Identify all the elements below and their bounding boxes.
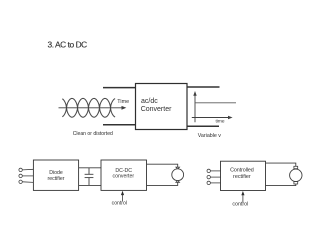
wire terminal 2 to rectifier (22, 175, 33, 177)
motor M1 brush top (176, 167, 180, 169)
wire output top (187, 86, 220, 88)
svg-text:rectifier: rectifier (47, 176, 64, 182)
motor M2 body (290, 169, 302, 181)
wire terminal 1 to rectifier (22, 168, 33, 171)
diode rectifier block (33, 160, 78, 190)
output time axis (192, 116, 233, 120)
svg-text:control: control (112, 201, 127, 207)
wire output bottom (187, 125, 219, 127)
wire motor bottom (147, 182, 178, 185)
dc bus bottom rail (79, 184, 101, 186)
capacitor C1 plate bottom (85, 177, 94, 179)
svg-text:Time: Time (117, 99, 129, 105)
control arrow (controlled rectifier) (241, 191, 244, 202)
input terminal 1 (19, 168, 22, 171)
svg-text:Diode: Diode (49, 170, 63, 176)
svg-text:ac/dc: ac/dc (141, 98, 158, 105)
wire terminal 6 to rectifier (211, 182, 221, 184)
svg-text:time: time (216, 118, 225, 124)
wire terminal 3 to rectifier (22, 181, 33, 184)
dc voltage level line (195, 102, 236, 104)
input terminal 4 (207, 169, 210, 172)
capacitor C1 plate top (85, 173, 94, 175)
ac/dc converter block U1 (136, 84, 188, 130)
dc bus top rail (79, 167, 101, 169)
svg-text:Clean or distorted: Clean or distorted (73, 131, 113, 137)
svg-text:3. AC to DC: 3. AC to DC (48, 40, 88, 50)
input terminal 6 (207, 181, 210, 184)
ac waveform sine strand A (62, 98, 115, 117)
input terminal 2 (19, 174, 22, 177)
wire input bottom (103, 124, 136, 126)
DC-DC converter block (101, 160, 147, 190)
wire motor2 top (266, 163, 296, 166)
motor M1 body (172, 169, 184, 181)
control arrow (dc-dc) (121, 191, 124, 202)
input time axis (59, 106, 127, 110)
output voltage axis (vertical) (193, 91, 196, 122)
svg-text:Variable v: Variable v (198, 133, 222, 139)
input terminal 5 (207, 175, 210, 178)
svg-text:Converter: Converter (141, 106, 172, 113)
wire input top (103, 87, 136, 89)
controlled rectifier block (221, 161, 266, 190)
ac waveform sine strand B (62, 98, 115, 117)
svg-text:Controlled: Controlled (230, 168, 254, 174)
capacitor C1 lead top (88, 168, 90, 175)
motor M2 brush top (294, 166, 298, 168)
wire terminal 4 to rectifier (211, 170, 221, 172)
capacitor C1 lead bottom (88, 178, 90, 186)
svg-text:control: control (232, 202, 248, 208)
wire motor top (147, 164, 178, 167)
svg-text:converter: converter (112, 174, 134, 180)
wire motor2 bottom (266, 184, 296, 186)
motor M2 brush bottom (294, 182, 298, 184)
svg-text:rectifier: rectifier (233, 174, 251, 180)
wire terminal 5 to rectifier (211, 176, 221, 178)
input terminal 3 (19, 180, 22, 183)
motor M1 brush bottom (176, 180, 180, 182)
